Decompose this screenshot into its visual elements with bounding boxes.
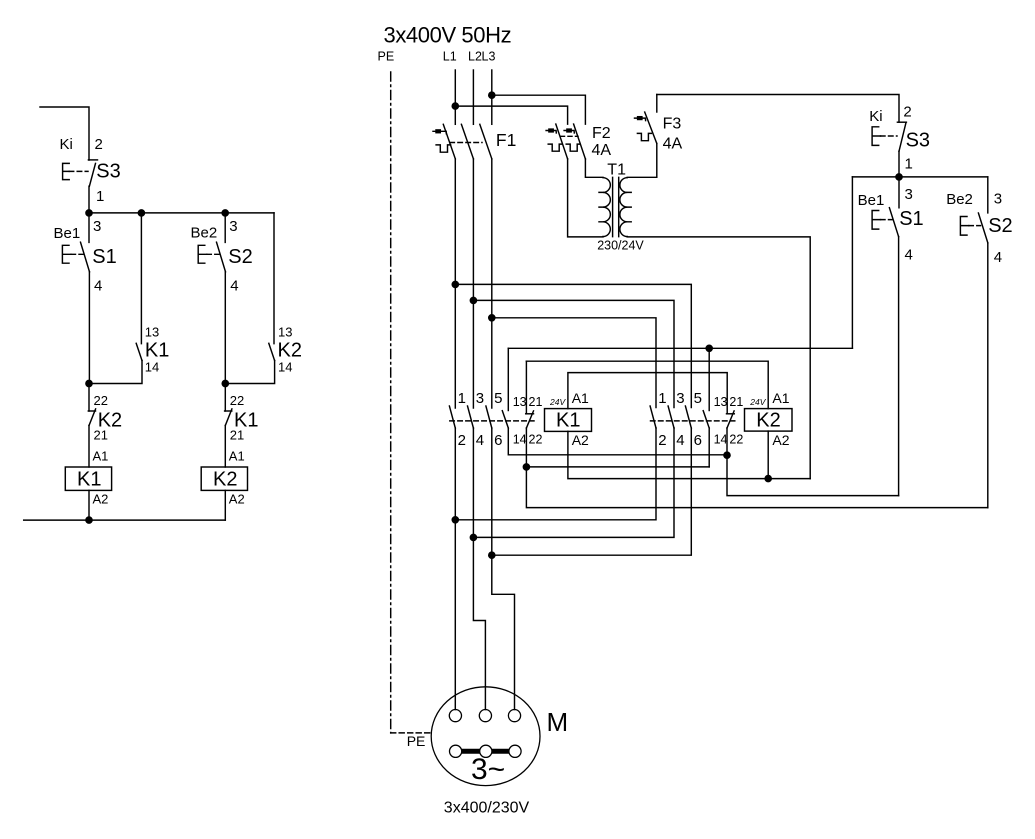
node junction S2/K2	[222, 380, 228, 386]
svg-text:13: 13	[714, 395, 728, 409]
node pole4 / K2 link	[470, 534, 476, 540]
wire F3 top	[656, 95, 658, 113]
switch S3 (NC pushbutton, Ki) seat tick	[88, 159, 97, 161]
wire link K2 pole4 to K1 pole4	[473, 428, 674, 537]
svg-text:S2: S2	[228, 246, 252, 268]
node K1 22 / K2 14 / S2 line	[523, 464, 529, 470]
S2 actuator bracket	[198, 245, 207, 263]
svg-text:S3: S3	[96, 161, 120, 183]
breaker F3 thermal element	[637, 133, 651, 140]
motor terminal W bottom	[509, 745, 521, 757]
svg-text:2: 2	[458, 432, 466, 449]
svg-text:6: 6	[694, 432, 702, 449]
svg-text:6: 6	[494, 432, 502, 449]
wire K1 aux rail to control drop	[508, 347, 852, 349]
breaker F3 contact	[645, 112, 657, 144]
contact K1 (NO) moving contact	[136, 343, 142, 360]
svg-text:Be1: Be1	[54, 225, 81, 242]
switch S3 (NC, Ki) seat tick	[897, 121, 906, 123]
svg-text:14: 14	[145, 360, 159, 375]
svg-text:3x400/230V: 3x400/230V	[444, 800, 530, 817]
svg-text:24V: 24V	[749, 397, 766, 407]
svg-text:S1: S1	[899, 208, 923, 230]
svg-text:4: 4	[476, 432, 484, 449]
svg-text:1: 1	[658, 390, 666, 407]
breaker F2 pole L operator square	[549, 129, 553, 132]
svg-text:K2: K2	[278, 340, 302, 362]
svg-text:2: 2	[903, 103, 911, 120]
wire coil K1 bottom to rail	[88, 490, 90, 520]
svg-text:3: 3	[93, 218, 101, 235]
svg-text:M: M	[547, 707, 569, 737]
node K2 22 / K1 14 / S1 line	[724, 452, 730, 458]
svg-text:13: 13	[145, 325, 159, 340]
svg-text:F3: F3	[663, 116, 682, 133]
wire F2 pole L down to T1 primary bottom	[568, 159, 603, 237]
wire S2 bottom down to lower junction	[224, 272, 226, 384]
svg-text:1: 1	[96, 188, 104, 205]
K2 linkage dashed	[651, 420, 735, 422]
S2 actuator bracket	[960, 217, 968, 236]
svg-text:3: 3	[994, 190, 1002, 207]
S2 actuator dashed link	[207, 253, 219, 255]
contact K1 aux 21-22 (NC) seat	[526, 413, 534, 415]
breaker F1 pole 1 contact	[443, 124, 455, 159]
wire L2 below F1	[472, 159, 474, 408]
wire K2 contact branch top	[273, 213, 275, 344]
breaker F2 pole L thermal element	[548, 144, 562, 151]
svg-text:4: 4	[94, 278, 102, 295]
svg-text:14: 14	[278, 360, 292, 375]
switch S2 moving contact (NO)	[978, 213, 987, 243]
wire L3 drop	[491, 70, 493, 124]
coil K2 box	[201, 467, 247, 490]
S2 actuator dashed link	[969, 225, 981, 227]
svg-text:Ki: Ki	[869, 108, 882, 125]
svg-text:PE: PE	[378, 50, 395, 64]
contact K1 pole 3-4	[468, 406, 474, 428]
contact K2 (NO) moving contact	[269, 343, 275, 360]
svg-text:K2: K2	[756, 410, 780, 432]
breaker F1 operator square	[436, 130, 440, 133]
breaker F1 pole 3 contact	[480, 124, 492, 159]
svg-text:T1: T1	[607, 161, 626, 178]
wire K1-22 node down and to S2	[526, 467, 987, 508]
S3 actuator dashed link	[881, 135, 898, 137]
svg-text:S1: S1	[92, 246, 116, 268]
contact K2 pole 5-6	[685, 406, 691, 428]
contact K2 aux 21-22 (NC) moving contact	[727, 411, 734, 428]
wire T1 secondary bottom to right drop	[627, 237, 810, 479]
wire L1 below F1	[454, 159, 456, 408]
S3 actuator bracket	[63, 163, 70, 179]
motor terminal V top	[479, 710, 491, 722]
svg-text:21: 21	[529, 395, 543, 409]
wire control rail under S3	[852, 176, 987, 178]
svg-text:5: 5	[494, 390, 502, 407]
motor terminal V bottom	[480, 745, 492, 757]
svg-text:L1: L1	[443, 50, 457, 64]
wire S2 top terminal	[987, 177, 989, 213]
breaker F2 linkage dashed	[561, 135, 579, 137]
wire PE dashed branch to motor	[391, 732, 431, 734]
switch S3 moving contact	[899, 123, 906, 151]
wire link K2 pole2 to K1 pole2	[455, 428, 656, 520]
breaker F2 pole R thermal element	[566, 144, 580, 151]
motor link bar	[456, 749, 515, 754]
svg-text:4: 4	[230, 278, 238, 295]
node junction K1 branch	[138, 210, 144, 216]
svg-text:S2: S2	[988, 215, 1012, 237]
T1 primary winding nubs	[599, 192, 603, 221]
wire K1 NC top terminal (right branch)	[224, 384, 226, 412]
wire link K2 pole6 to K1 pole6	[492, 428, 692, 555]
wire bottom return rail	[24, 519, 226, 521]
wire S1 top terminal	[88, 213, 90, 243]
svg-text:4A: 4A	[592, 142, 612, 159]
breaker F2 pole R operator	[564, 131, 574, 134]
node L2 tap to K2 feed	[470, 297, 476, 303]
svg-text:A2: A2	[93, 492, 109, 507]
coil K1 box	[65, 467, 111, 490]
svg-text:14: 14	[714, 433, 728, 447]
node L3 tap to F2	[489, 92, 495, 98]
svg-text:3: 3	[476, 390, 484, 407]
breaker F1 operator line with square	[433, 131, 446, 134]
transformer T1 primary winding	[603, 178, 610, 237]
wire K1-22 node to K2 aux 14	[526, 466, 709, 468]
S1 actuator bracket	[62, 245, 71, 263]
svg-text:22: 22	[94, 393, 108, 408]
wire horizontal rail under S3	[89, 212, 274, 214]
wire L2 drop	[472, 70, 474, 124]
wire K2 coil A2 to 0V rail	[767, 431, 769, 479]
svg-text:2: 2	[95, 136, 103, 153]
wire K1 aux 14 bottom to K2 22	[508, 428, 727, 455]
contact K2 aux 13-14 (NO)	[703, 411, 709, 428]
wire S3 bottom to junction	[88, 186, 90, 213]
breaker F1 thermal element	[436, 145, 451, 152]
node pole6 / K2 link	[489, 552, 495, 558]
node junction under S3	[896, 174, 902, 180]
contact K1 (NC) seat	[225, 410, 232, 412]
S1 actuator dashed link	[881, 219, 893, 221]
wire L2 to K2 pole 3	[473, 300, 674, 407]
contact K1 pole 1-2	[449, 406, 455, 428]
svg-text:24V: 24V	[549, 397, 566, 407]
wire L3 below F1	[491, 159, 493, 408]
wire F3 to S3 (control feed)	[657, 95, 899, 123]
S3 actuator bracket	[872, 127, 880, 146]
svg-text:Be2: Be2	[191, 225, 218, 242]
motor terminal W top	[508, 710, 520, 722]
svg-text:3: 3	[229, 218, 237, 235]
switch S2 moving contact (NO pushbutton)	[217, 242, 226, 272]
coil K1 box	[545, 409, 592, 432]
contact K1 aux 21-22 (NC) moving contact	[526, 411, 533, 428]
breaker F2 pole R contact	[574, 124, 586, 159]
node junction S2 branch	[222, 210, 228, 216]
svg-text:4A: 4A	[663, 136, 683, 153]
wire control left drop to aux rail	[851, 177, 853, 348]
motor terminal U bottom	[450, 745, 462, 757]
wire S3 bottom to junction node	[898, 151, 900, 177]
wire K2 aux 14 bottom to K1-22 node	[708, 428, 710, 467]
svg-text:14: 14	[513, 433, 527, 447]
wire S2 bottom long drop	[987, 243, 989, 508]
wire L3 to K2 pole 1 (phase swap)	[492, 318, 656, 408]
wire K1 coil A1 riser	[568, 373, 727, 414]
svg-text:22: 22	[529, 433, 543, 447]
S1 actuator bracket	[872, 211, 880, 230]
wire top-left feed to S3	[40, 107, 89, 160]
wire K2-22 node down and to S1	[727, 455, 899, 495]
svg-text:A1: A1	[93, 449, 109, 464]
wire coil K2 bottom to rail	[224, 490, 226, 520]
wire PE dash-dot line	[390, 72, 392, 733]
wire S1 bottom down to lower junction	[88, 272, 90, 384]
T1 secondary winding nubs	[627, 192, 631, 221]
contact K1 pole 5-6	[486, 406, 492, 428]
svg-text:A2: A2	[229, 492, 245, 507]
wire K1 coil A2 to 0V rail	[568, 431, 810, 478]
svg-text:13: 13	[278, 325, 292, 340]
wire L1 to K2 pole 5 (phase swap)	[455, 284, 691, 407]
svg-text:A1: A1	[772, 390, 789, 406]
contact K1 aux 13-14 (NO)	[502, 411, 508, 428]
svg-text:4: 4	[905, 246, 913, 263]
svg-text:230/24V: 230/24V	[597, 239, 644, 253]
svg-text:A1: A1	[572, 390, 589, 406]
contact K1 (NC) moving contact	[225, 409, 232, 426]
S3 actuator dashed link	[69, 170, 88, 172]
svg-text:22: 22	[230, 393, 244, 408]
wire S2 top terminal	[224, 213, 226, 243]
breaker F2 pole L operator	[546, 131, 556, 134]
svg-text:21: 21	[94, 427, 108, 442]
breaker F1 linkage dashed	[450, 142, 482, 144]
svg-text:21: 21	[729, 395, 743, 409]
node junction S3/S1	[86, 210, 92, 216]
svg-text:3x400V 50Hz: 3x400V 50Hz	[384, 23, 512, 48]
node L1 tap to K2 feed	[452, 281, 458, 287]
svg-text:21: 21	[230, 427, 244, 442]
node junction S1/K1	[86, 380, 92, 386]
svg-text:13: 13	[513, 395, 527, 409]
svg-text:K1: K1	[556, 410, 580, 432]
contact K2 aux 21-22 (NC) seat	[727, 413, 735, 415]
contact K2 (NC) moving contact	[89, 409, 96, 426]
wire K1 NC bottom to coil K2	[224, 426, 226, 468]
svg-text:L2: L2	[468, 50, 482, 64]
contact K2 pole 1-2	[650, 406, 656, 428]
svg-text:F2: F2	[592, 125, 611, 142]
svg-text:A1: A1	[229, 449, 245, 464]
svg-text:Ki: Ki	[60, 136, 73, 153]
wire T1 secondary top to F3	[627, 144, 657, 178]
svg-text:3~: 3~	[471, 753, 505, 786]
coil K2 box	[745, 409, 793, 432]
node K2 A2 on 0V rail	[765, 476, 771, 482]
wire K1 aux21 to K2 coil A1	[526, 361, 768, 408]
wire L3 tap to F2 right pole	[492, 95, 586, 124]
motor M circle	[431, 687, 540, 786]
wire K1 contact branch top	[140, 213, 142, 344]
svg-text:S3: S3	[906, 130, 930, 152]
svg-text:K1: K1	[77, 469, 101, 491]
node pole2 / K2 link	[452, 517, 458, 523]
wire K1 aux 22 bottom to node	[525, 428, 527, 467]
wire L1 tap to F2 left pole	[455, 106, 567, 124]
breaker F2 pole R operator square	[567, 129, 571, 132]
wire K1 pole6 to motor phase W	[492, 428, 515, 710]
breaker F3 operator	[635, 118, 646, 121]
svg-text:K2: K2	[213, 469, 237, 491]
svg-text:F1: F1	[496, 130, 516, 150]
node L3 tap to K2 feed	[489, 315, 495, 321]
wire L1 drop	[454, 70, 456, 124]
svg-text:A2: A2	[772, 432, 789, 448]
wire K1 aux 21 top	[525, 361, 527, 414]
svg-text:2: 2	[658, 432, 666, 449]
svg-text:1: 1	[458, 390, 466, 407]
svg-text:3: 3	[676, 390, 684, 407]
transformer T1 secondary winding	[620, 178, 627, 237]
S1 actuator dashed link	[71, 253, 83, 255]
svg-text:4: 4	[994, 249, 1002, 266]
svg-text:Be1: Be1	[858, 192, 885, 209]
wire K2 NC top terminal	[88, 384, 90, 412]
switch S1 moving contact (NO)	[889, 208, 898, 237]
svg-text:22: 22	[729, 433, 743, 447]
wire S1 bottom long drop	[898, 237, 900, 496]
contact K2 pole 3-4	[668, 406, 674, 428]
svg-text:PE: PE	[407, 733, 426, 749]
wire K1 aux 13 top	[507, 348, 509, 410]
breaker F3 operator square	[638, 117, 642, 120]
svg-text:4: 4	[676, 432, 684, 449]
motor terminal U top	[449, 710, 461, 722]
wire K2 NC bottom to coil K1	[88, 426, 90, 468]
wire F2 pole R down to T1 primary top	[585, 159, 603, 177]
wire K1 pole2 to motor phase U	[454, 428, 456, 710]
svg-text:Be2: Be2	[946, 191, 973, 208]
svg-text:A2: A2	[572, 432, 589, 448]
svg-text:3: 3	[905, 186, 913, 203]
breaker F1 pole 2 contact	[461, 124, 473, 159]
contact K2 (NC) seat	[88, 410, 95, 412]
breaker F2 pole L contact	[556, 124, 568, 159]
wire K2 contact bottom to rail	[225, 361, 274, 384]
wire K1 pole4 to motor phase V	[473, 428, 485, 710]
switch S1 moving contact (NO pushbutton)	[81, 242, 90, 272]
switch S3 moving contact	[89, 163, 95, 186]
transformer T1 core	[613, 177, 619, 236]
svg-text:L3: L3	[482, 50, 496, 64]
node K2 aux 13 tap	[706, 345, 712, 351]
wire K2 aux 13 top	[708, 348, 710, 410]
svg-text:5: 5	[694, 390, 702, 407]
wire K2 aux 22 bottom to node	[726, 428, 728, 455]
node L1 tap to F2	[452, 103, 458, 109]
svg-text:1: 1	[905, 156, 913, 173]
svg-text:K1: K1	[145, 340, 169, 362]
node junction coil K1 / rail	[86, 517, 92, 523]
K1 linkage dashed	[450, 420, 534, 422]
wire K1 contact bottom to rail	[89, 361, 142, 384]
wire S1 top terminal	[898, 177, 900, 208]
